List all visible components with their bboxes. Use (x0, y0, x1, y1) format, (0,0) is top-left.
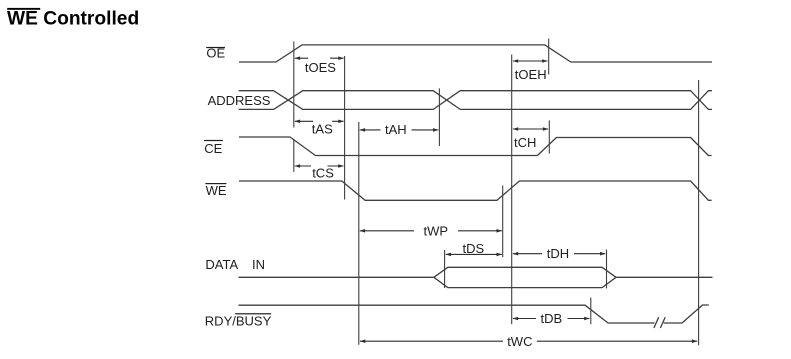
vertical reference line VL1 upper (OE rise / tAS left) (293, 42, 295, 128)
svg-text:DATA: DATA (205, 257, 238, 272)
svg-text:tAH: tAH (385, 122, 407, 137)
svg-text:RDY/BUSY: RDY/BUSY (205, 313, 272, 328)
dimension tWP (360, 223, 502, 238)
tick tCH right (548, 120, 550, 153)
vertical reference line VL3 (tAH/tWP/tWC left) (358, 122, 360, 345)
svg-text:tCH: tCH (514, 135, 536, 150)
tick tDS left (444, 250, 446, 288)
svg-text:tAS: tAS (312, 122, 333, 137)
break slash 1 (654, 317, 659, 328)
vertical reference line VL1 lower (tCS left) (293, 139, 295, 172)
signal DATA IN line (239, 276, 434, 278)
dimension tCH (513, 127, 549, 150)
signal WE waveform (239, 181, 712, 200)
dimension tOES (295, 56, 344, 75)
svg-text:tOES: tOES (305, 60, 336, 75)
dimension tDB (513, 311, 590, 326)
title WE Controlled (7, 8, 139, 30)
svg-text:ADDRESS: ADDRESS (208, 93, 271, 108)
svg-text:WE: WE (206, 183, 227, 198)
signal ADDRESS bus rail B (239, 91, 712, 110)
vertical reference line VL2 (tOES/tAS/tCS right) (344, 56, 346, 200)
svg-text:tDH: tDH (547, 246, 569, 261)
tick tOEH right (548, 39, 550, 75)
signal ADDRESS bus rail A (239, 91, 712, 110)
label DATA IN (205, 257, 265, 272)
svg-text:tCS: tCS (312, 166, 334, 181)
signal OE waveform (239, 45, 712, 62)
dimension tDH (513, 246, 606, 261)
svg-text:WE Controlled: WE Controlled (7, 9, 139, 30)
svg-text:tDS: tDS (463, 241, 485, 256)
label CE (204, 140, 223, 156)
dimension tWC (360, 334, 698, 349)
signal DATA IN bus valid region (434, 267, 616, 287)
signal CE waveform (239, 137, 712, 156)
vertical reference line VL4 (tAH right) (438, 88, 440, 146)
break slash 2 (660, 317, 665, 328)
signal RDY/BUSY after break (664, 305, 709, 323)
tick tDH right (606, 250, 608, 289)
label RDY/BUSY (205, 313, 272, 328)
svg-text:CE: CE (204, 141, 222, 156)
svg-text:tWP: tWP (424, 223, 449, 238)
tick tDB right (590, 298, 592, 325)
dimension tAS (295, 120, 344, 137)
dimension tOEH (513, 59, 548, 82)
vertical reference line VL7 (tWC right) (698, 80, 700, 345)
vertical reference line VL5 (tWP/tDS right) (502, 186, 504, 258)
svg-text:tOEH: tOEH (515, 67, 547, 82)
label WE (205, 183, 226, 198)
svg-text:tDB: tDB (541, 311, 563, 326)
svg-text:tWC: tWC (507, 334, 532, 349)
vertical reference line VL6 (tOEH/tCH/tDH/tDB left) (511, 55, 513, 325)
dimension tDS (446, 241, 502, 256)
signal DATA IN trailing line (616, 276, 713, 278)
dimension tCS (295, 164, 344, 181)
label OE (206, 46, 225, 61)
svg-text:IN: IN (252, 257, 265, 272)
signal RDY/BUSY waveform (239, 305, 655, 323)
dimension tAH (360, 122, 439, 137)
